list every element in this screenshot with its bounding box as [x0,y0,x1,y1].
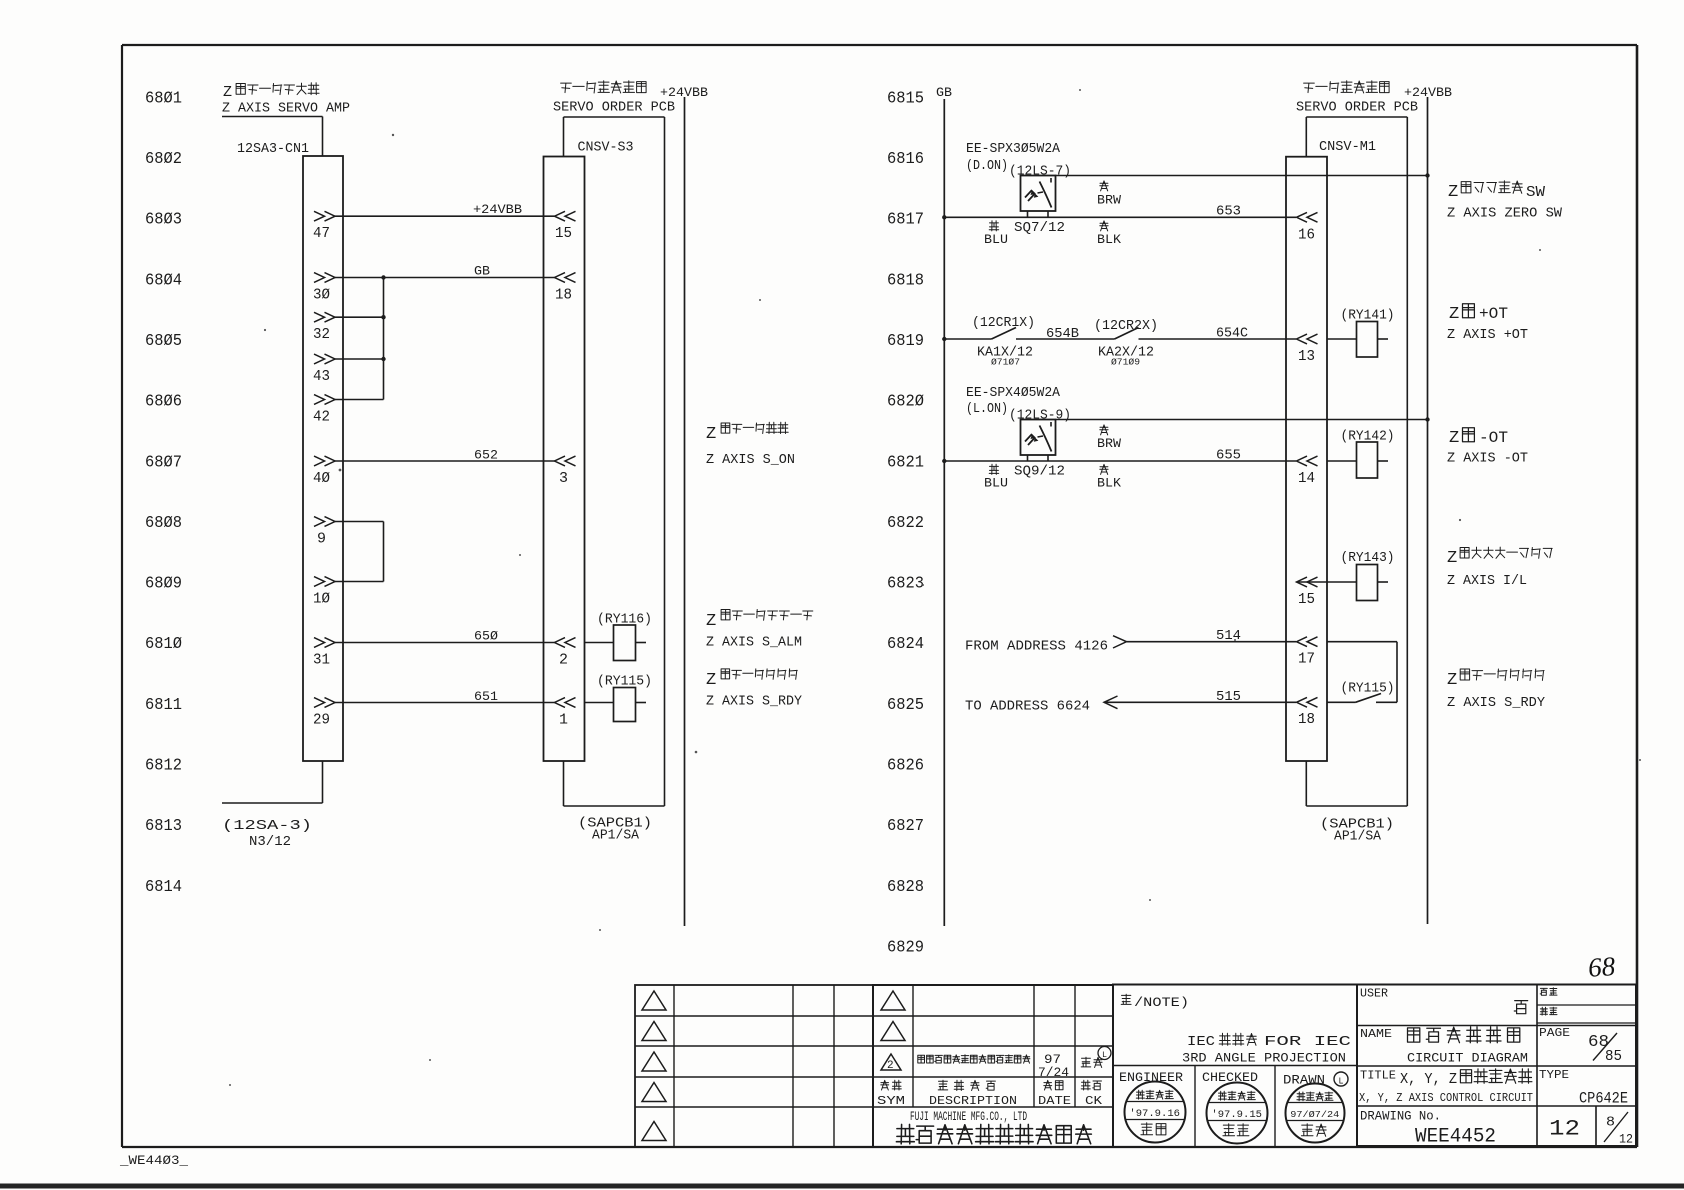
line number 6804 [145,270,182,289]
svg-text:Z: Z [706,425,716,444]
svg-text:6824: 6824 [887,634,924,653]
+24VBB rail right half [1427,97,1429,924]
svg-text:97/Ø7/24: 97/Ø7/24 [1290,1109,1339,1120]
svg-text:8: 8 [1606,1116,1615,1131]
maker name FUJI MACHINE MFG.CO., LTD [910,1110,1027,1124]
svg-text:DRAWING No.: DRAWING No. [1360,1110,1441,1124]
svg-text:6827: 6827 [887,816,924,835]
line number 6810 [145,634,182,653]
label TITLE X Y Z axis control (Japanese) [1360,1069,1532,1089]
pin 30 of 12SA3-CN1 with arrow [313,273,335,304]
connector 12SA3-CN1 box [303,156,343,761]
junction dot GB rail line 6819 [942,337,946,341]
svg-text:SQ9/12: SQ9/12 [1014,465,1065,480]
svg-text:(D.ON): (D.ON) [966,159,1008,174]
CNSV-S3 bottom stub wire [564,761,665,806]
line number 6824 [887,634,924,653]
svg-text:BLU: BLU [984,477,1008,491]
line number 6828 [887,877,924,896]
svg-text:6829: 6829 [887,938,924,957]
svg-text:'97.9.15: '97.9.15 [1211,1109,1262,1121]
label Z axis interlock (Japanese) [1447,547,1552,568]
wire pin32 stub [335,316,384,318]
wire 514 line 6824 with arrow [1113,629,1296,648]
CNSV-M1 bottom stub wire [1306,761,1407,806]
revision table 1 triangles [642,991,666,1141]
svg-text:SERVO ORDER PCB: SERVO ORDER PCB [1296,101,1418,116]
wire from 12LS-7 to +24VBB rail [1056,175,1428,177]
wire 653 line 6817 [944,205,1296,220]
svg-text:BRW: BRW [1097,194,1122,208]
label USER and tono (Japanese) [1360,988,1528,1014]
amp label leader line [222,117,323,157]
svg-text:68Ø5: 68Ø5 [145,331,182,350]
limit switch SQ9/12 symbol box [1021,420,1056,456]
GB jumper vertical wire [383,278,385,400]
label NOTE (Japanese) [1121,994,1189,1010]
svg-text:68Ø3: 68Ø3 [145,210,182,229]
wire 654B segment [1016,327,1115,342]
svg-text:BLK: BLK [1097,477,1122,491]
line number 6813 [145,816,182,835]
svg-text:(12LS-9): (12LS-9) [1009,409,1071,424]
label Z AXIS +OT [1447,328,1528,343]
limit switch SQ7/12 symbol box [1021,176,1056,212]
svg-text:3Ø: 3Ø [313,287,330,304]
scan specks [229,89,1641,1086]
svg-text:(12SA-3): (12SA-3) [222,819,312,834]
svg-text:6812: 6812 [145,756,182,775]
title block info table grid [1357,985,1636,1147]
svg-text:FROM ADDRESS 4126: FROM ADDRESS 4126 [965,640,1108,655]
line number 6816 [887,149,924,168]
pin 29 of 12SA3-CN1 with arrow [313,698,335,729]
line number 6811 [145,695,182,714]
maker name Fuji Kikai Seizo KK (Japanese) [896,1124,1091,1143]
svg-text:6817: 6817 [887,210,924,229]
svg-text:65Ø: 65Ø [474,629,498,644]
junction dot GB rail line 6817 [942,215,946,219]
svg-text:FUJI MACHINE MFG.CO., LTD: FUJI MACHINE MFG.CO., LTD [910,1110,1027,1124]
svg-text:6814: 6814 [145,877,182,896]
line number 6814 [145,877,182,896]
wire 651 line 6811 pin29 to pin1 [335,689,555,704]
revision 2 triangle with number [881,1054,901,1072]
svg-text:SERVO ORDER PCB: SERVO ORDER PCB [553,101,675,116]
svg-text:N3/12: N3/12 [249,835,291,850]
labels bunban seiban (Japanese) [1540,988,1557,1015]
svg-text:654C: 654C [1216,327,1248,342]
jumper pin9 to pin10 vertical wire [383,522,385,582]
svg-text:_WE44Ø3_: _WE44Ø3_ [119,1154,189,1168]
label TO ADDRESS 6624 [965,700,1090,715]
svg-text:(L.ON): (L.ON) [966,402,1008,417]
label (SAPCB1) AP1/SA right [1320,818,1394,845]
svg-text:TITLE: TITLE [1360,1069,1396,1083]
limit switch SQ9/12 (12LS-9) labels [966,386,1071,424]
svg-text:15: 15 [555,225,572,242]
svg-text:CP642E: CP642E [1579,1090,1628,1108]
junction dot on +24VBB rail line 6816 [1425,173,1429,177]
label SERVO ORDER PCB left [553,101,675,116]
svg-text:6821: 6821 [887,452,924,471]
svg-text:Z: Z [1447,549,1457,568]
svg-text:TO ADDRESS 6624: TO ADDRESS 6624 [965,700,1090,715]
svg-text:7/24: 7/24 [1038,1066,1069,1080]
drawn stamp Esaka [1286,1084,1345,1143]
pin 15 of CNSV-M1 with arrow [1297,577,1318,608]
pin 3 of CNSV-S3 with arrow [555,456,576,487]
circled L mark drawn [1334,1072,1348,1087]
handwritten page number 68 [1587,951,1617,983]
connector name CNSV-S3 [578,141,634,156]
svg-text:6815: 6815 [887,88,924,107]
svg-text:IEC: IEC [1187,1035,1215,1050]
line number 6803 [145,210,182,229]
svg-text:Ø71Ø7: Ø71Ø7 [991,357,1020,368]
svg-text:AP1/SA: AP1/SA [592,829,640,844]
wire from 12LS-9 to +24VBB rail [1056,419,1428,421]
svg-text:DATE: DATE [1038,1094,1071,1108]
svg-text:17: 17 [1298,651,1315,668]
line number 6806 [145,392,182,411]
svg-text:EE-SPX4Ø5W2A: EE-SPX4Ø5W2A [966,386,1061,401]
connector CNSV-S3 box [544,157,585,762]
pin 1 of CNSV-S3 with arrow [555,698,576,729]
contact KA2X/12 (12CR2X) [1094,319,1158,368]
svg-text:68Ø1: 68Ø1 [145,88,182,107]
svg-text:9: 9 [317,531,326,548]
svg-text:13: 13 [1298,348,1315,365]
label Z axis -OT (Japanese) [1449,428,1508,448]
svg-text:Z: Z [223,84,232,101]
wire 652 line 6807 pin40 to pin3 [335,448,555,463]
svg-text:68Ø7: 68Ø7 [145,452,182,471]
line number 6802 [145,149,182,168]
limit switch SQ7/12 leg wires [1028,211,1049,217]
svg-text:2: 2 [887,1060,894,1072]
label (12SA-3) N3/12 [222,819,312,850]
svg-text:(12CR2X): (12CR2X) [1094,319,1158,334]
svg-text:FOR IEC: FOR IEC [1264,1035,1351,1050]
connector CNSV-M1 box [1286,157,1327,761]
svg-text:AP1/SA: AP1/SA [1334,830,1382,845]
line number 6818 [887,270,924,289]
label Z axis +OT (Japanese) [1449,304,1508,324]
revision CK Esaka (Japanese) [1081,1057,1102,1067]
svg-text:Z AXIS +OT: Z AXIS +OT [1447,328,1528,343]
bottom scan bar [0,1184,1684,1189]
svg-text:652: 652 [474,448,498,463]
svg-text:47: 47 [313,225,330,242]
label TYPE CP642E [1539,1068,1628,1108]
svg-text:'97.9.16: '97.9.16 [1129,1108,1180,1120]
wire pin10 stub [335,581,384,583]
relay coil RY115 left [585,675,653,722]
line number 6823 [887,574,924,593]
pin 17 of CNSV-M1 with arrow [1297,637,1318,668]
svg-text:SQ7/12: SQ7/12 [1014,221,1065,236]
svg-text:Z: Z [706,671,716,690]
header row SYM / DESCRIPTION / DATE / CK [877,1080,1103,1108]
pin 14 of CNSV-M1 with arrow [1297,456,1318,487]
revision table 2 grid [873,985,1113,1147]
label CIRCUIT DIAGRAM [1407,1051,1528,1066]
connector name CNSV-M1 [1319,140,1376,155]
label Z AXIS S_RDY left [706,695,802,710]
wire pin43 stub [335,358,384,360]
svg-text:6819: 6819 [887,331,924,350]
label Z AXIS S_ALM [706,636,802,651]
svg-text:32: 32 [313,326,330,343]
svg-text:4Ø: 4Ø [313,470,330,487]
pin 18 of CNSV-S3 with arrow [555,273,576,304]
svg-text:Z: Z [1448,183,1458,202]
label +24VBB right rail [1404,85,1452,100]
pin 42 of 12SA3-CN1 with arrow [313,395,335,426]
pin 18 of CNSV-M1 with arrow [1297,697,1318,728]
servo order pcb outer box left [564,117,665,806]
svg-text:6823: 6823 [887,574,924,593]
pin 40 of 12SA3-CN1 with arrow [313,456,335,487]
svg-text:651: 651 [474,689,498,704]
label NAME circuit diagram (Japanese) [1360,1027,1520,1043]
circled L mark revision row [1098,1047,1111,1061]
pin 2 of CNSV-S3 with arrow [555,638,576,669]
svg-text:29: 29 [313,712,330,729]
connector name 12SA3-CN1 [237,142,309,157]
label Z AXIS ZERO SW [1447,207,1563,222]
wire pin42 stub [335,399,384,401]
svg-text:-OT: -OT [1479,429,1508,447]
limit switch SQ9/12 leg wires [1028,455,1049,461]
svg-text:16: 16 [1298,227,1315,244]
line number 6826 [887,756,924,775]
svg-text:CNSV-S3: CNSV-S3 [578,141,634,156]
svg-text:X, Y, Z AXIS CONTROL CIRCUIT: X, Y, Z AXIS CONTROL CIRCUIT [1359,1091,1533,1105]
line number 6822 [887,513,924,532]
label SERVO ORDER PCB right [1296,101,1418,116]
pin 15 of CNSV-S3 with arrow [555,211,576,242]
svg-text:681Ø: 681Ø [145,634,182,653]
svg-text:X, Y, Z: X, Y, Z [1400,1071,1457,1088]
svg-text:DESCRIPTION: DESCRIPTION [929,1094,1017,1108]
svg-text:6818: 6818 [887,270,924,289]
line number 6807 [145,452,182,471]
label Z axis servo ready (Japanese) left [706,669,797,690]
svg-text:NAME: NAME [1360,1027,1392,1041]
svg-text:Z AXIS S_ALM: Z AXIS S_ALM [706,636,802,651]
svg-text:653: 653 [1216,205,1241,220]
line number 6817 [887,210,924,229]
junction dot pin32 [381,315,385,319]
svg-text:USER: USER [1360,988,1388,1001]
svg-text:18: 18 [555,287,572,304]
label (SAPCB1) AP1/SA left [578,817,652,844]
svg-text:655: 655 [1216,449,1241,464]
label servo order pcb (Japanese) right [1304,81,1390,93]
svg-text:97: 97 [1044,1053,1061,1067]
line number 6829 [887,938,924,957]
wire +24VBB line 6803 pin47 to pin15 [335,202,555,217]
label PAGE 68/85 [1539,1026,1622,1065]
svg-text:CNSV-M1: CNSV-M1 [1319,140,1376,155]
svg-text:GB: GB [936,86,953,100]
svg-text:15: 15 [1298,591,1315,608]
wire 655 line 6821 [944,449,1296,464]
svg-text:(RY115): (RY115) [1341,682,1395,697]
svg-text:6828: 6828 [887,877,924,896]
svg-text:(12CR1X): (12CR1X) [972,316,1035,331]
line number 6809 [145,574,182,593]
label Z axis zero SW (Japanese) [1448,181,1545,202]
label servo order pcb (Japanese) left [561,81,647,93]
relay coil RY143 [1297,551,1395,601]
pin 9 of 12SA3-CN1 with arrow [314,517,335,548]
svg-text:682Ø: 682Ø [887,392,924,411]
stamp column labels ENGINEER CHECKED DRAWN [1119,1070,1325,1088]
svg-text:68: 68 [1587,951,1617,983]
line number 6821 [887,452,924,471]
svg-text:+OT: +OT [1479,305,1508,323]
svg-text:68Ø8: 68Ø8 [145,513,182,532]
label Z AXIS S_ON [706,453,795,468]
revision table 2 triangles [881,991,905,1041]
label Z axis servo ON (Japanese) [706,422,788,444]
svg-text:6813: 6813 [145,816,182,835]
svg-text:6811: 6811 [145,695,182,714]
pin 43 of 12SA3-CN1 with arrow [313,354,335,385]
checked stamp Yamamoto [1207,1083,1268,1144]
svg-text:SYM: SYM [877,1094,905,1108]
svg-text:/NOTE): /NOTE) [1134,995,1189,1010]
svg-text:CIRCUIT DIAGRAM: CIRCUIT DIAGRAM [1407,1051,1528,1066]
svg-text:68Ø4: 68Ø4 [145,270,182,289]
label Z axis servo amp (Japanese) [223,83,319,101]
svg-text:514: 514 [1216,629,1241,644]
svg-text:SW: SW [1526,184,1545,201]
label FROM ADDRESS 4126 [965,640,1108,655]
amp bottom stub wire [222,761,323,803]
wire GB line 6804 pin30 to pin18 [335,264,555,279]
line number 6825 [887,695,924,714]
limit switch SQ7/12 (12LS-7) labels [966,142,1071,180]
line number 6815 [887,88,924,107]
svg-text:68Ø6: 68Ø6 [145,392,182,411]
pin 47 of 12SA3-CN1 with arrow [313,211,335,242]
svg-text:654B: 654B [1046,327,1079,342]
pin 13 of CNSV-M1 with arrow [1297,334,1318,365]
servo order pcb outer box right [1306,117,1407,806]
label Z axis servo ready (Japanese) right [1447,669,1544,690]
revision row description (Japanese) [918,1055,1030,1064]
wire 654 line 6819 from GB rail [944,338,991,340]
label +24VBB left rail [660,85,708,100]
svg-text:6822: 6822 [887,513,924,532]
junction dot on +24VBB rail line 6820 [1425,417,1429,421]
svg-text:BRW: BRW [1097,437,1122,451]
pin 16 of CNSV-M1 with arrow [1297,212,1318,243]
line number 6801 [145,88,182,107]
label X,Y,Z AXIS CONTROL CIRCUIT [1359,1091,1533,1105]
svg-text:85: 85 [1605,1049,1622,1065]
wire pin9 stub [335,521,384,523]
line number 6827 [887,816,924,835]
wire pin17 loop to RY115 contact [1327,642,1397,703]
revision date 97 7/24 [1038,1053,1069,1080]
svg-text:Z AXIS -OT: Z AXIS -OT [1447,452,1528,467]
svg-text:12: 12 [1549,1117,1580,1142]
revision table 1 grid [635,985,873,1147]
+24VBB rail left half [684,97,686,926]
svg-text:14: 14 [1298,470,1315,487]
svg-text:6826: 6826 [887,756,924,775]
svg-text:Z: Z [1449,305,1459,324]
relay coil RY141 [1327,309,1395,358]
junction dot GB rail line 6821 [942,459,946,463]
svg-text:(12LS-7): (12LS-7) [1009,165,1071,180]
svg-text:Z AXIS SERVO AMP: Z AXIS SERVO AMP [222,101,350,117]
relay coil RY116 [585,613,653,661]
label Z AXIS S_RDY right [1447,696,1545,711]
pin 31 of 12SA3-CN1 with arrow [313,638,335,669]
svg-text:6825: 6825 [887,695,924,714]
svg-text:L: L [1339,1077,1344,1087]
svg-text:TYPE: TYPE [1539,1068,1569,1082]
svg-text:1: 1 [559,712,568,729]
label Z AXIS SERVO AMP [222,101,350,117]
svg-text:43: 43 [313,368,330,385]
label Z axis servo alarm (Japanese) [706,610,813,632]
svg-text:42: 42 [313,409,330,426]
pin 10 of 12SA3-CN1 with arrow [313,577,335,608]
film edge label _WE4403_ [119,1154,189,1168]
svg-text:Z AXIS S_RDY: Z AXIS S_RDY [1447,696,1545,711]
label DRAWING No. WEE4452 [1360,1110,1496,1149]
relay coil RY142 [1327,430,1395,479]
contact KA1X/12 (12CR1X) [972,316,1035,368]
svg-text:WEE4452: WEE4452 [1415,1126,1496,1149]
svg-text:3: 3 [559,470,568,487]
svg-text:31: 31 [313,652,330,669]
wire 650 line 6810 pin31 to pin2 [335,629,555,644]
pin 32 of 12SA3-CN1 with arrow [313,312,335,343]
engineer stamp Adachi [1125,1082,1186,1143]
svg-text:BLK: BLK [1097,233,1122,247]
svg-text:GB: GB [474,264,490,279]
svg-text:3RD ANGLE PROJECTION: 3RD ANGLE PROJECTION [1182,1051,1346,1066]
wire color labels BLU BRW BLK for SQ9 [984,425,1122,491]
svg-text:6816: 6816 [887,149,924,168]
svg-text:515: 515 [1216,690,1241,705]
sheet 8/12 [1604,1112,1633,1147]
svg-text:2: 2 [559,652,568,669]
svg-text:12SA3-CN1: 12SA3-CN1 [237,142,309,157]
GB rail wire [943,99,945,926]
line number 6819 [887,331,924,350]
wire color labels BLU BRW BLK for SQ7 [984,181,1122,247]
wire 654C segment line 6819 [1139,327,1297,342]
svg-text:68Ø9: 68Ø9 [145,574,182,593]
svg-text:BLU: BLU [984,233,1008,247]
line number 6820 [887,392,924,411]
svg-text:12: 12 [1619,1133,1633,1147]
wire 515 line 6825 with arrow [1104,690,1296,709]
label GB rail [936,86,953,100]
label Z AXIS I/L [1447,574,1527,589]
note box [1113,985,1357,1148]
svg-text:Z: Z [1447,671,1457,690]
